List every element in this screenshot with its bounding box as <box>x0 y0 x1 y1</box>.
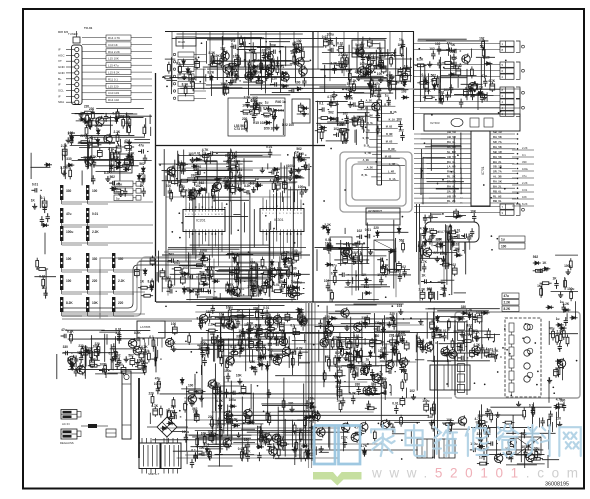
capacitor C391 <box>205 290 216 294</box>
pin 13 IC701 <box>446 192 471 194</box>
resistor R188 <box>259 285 271 288</box>
wire <box>205 74 207 81</box>
wire <box>442 422 465 424</box>
diode D113 <box>301 106 309 110</box>
capacitor C94 in CRT block <box>527 372 533 378</box>
pin 21 IC201 <box>211 232 213 235</box>
resistor R115 <box>208 63 220 66</box>
wire <box>230 201 232 234</box>
wire <box>250 384 252 410</box>
wire <box>291 351 293 375</box>
wire <box>271 350 283 352</box>
jumper bar J14 <box>86 297 89 312</box>
wire <box>427 168 446 170</box>
wire <box>207 385 243 387</box>
wire <box>358 379 380 381</box>
svg-text:100: 100 <box>501 245 507 249</box>
svg-text:GND: GND <box>58 65 66 69</box>
wire <box>82 57 106 59</box>
wire <box>541 284 543 297</box>
diode D234 <box>368 81 372 89</box>
wire <box>255 76 289 78</box>
svg-text:100: 100 <box>199 446 205 450</box>
wire gray bus top right <box>344 89 520 108</box>
svg-text:SL_8M: SL_8M <box>447 150 456 154</box>
capacitor C361 <box>482 451 486 460</box>
resistor R181 <box>170 190 173 202</box>
ground <box>381 326 386 332</box>
capacitor C140 <box>125 156 130 167</box>
wire <box>357 367 359 377</box>
capacitor C104 <box>230 45 241 49</box>
wire <box>218 345 220 357</box>
pin 10 IC301 <box>293 206 295 209</box>
wire <box>426 143 446 145</box>
capacitor C188 <box>333 133 344 137</box>
wire <box>254 336 285 338</box>
connector CN201 <box>500 41 514 46</box>
jumper bar J3 <box>60 208 63 223</box>
wire <box>231 46 233 85</box>
capacitor C431 <box>116 144 121 155</box>
svg-text:220: 220 <box>118 301 124 305</box>
diode D224 <box>180 377 184 385</box>
pin 3 IC701 <box>446 143 471 145</box>
resistor R101 <box>116 109 119 121</box>
wire bus snake black <box>62 265 206 308</box>
wire <box>279 256 281 284</box>
svg-text:1u: 1u <box>385 93 389 97</box>
svg-text:0.1: 0.1 <box>191 449 196 453</box>
pin 12 IC301 <box>300 206 302 209</box>
wire <box>453 137 455 203</box>
svg-text:1u: 1u <box>556 317 560 321</box>
svg-text:100u: 100u <box>567 287 574 291</box>
wire <box>194 61 206 63</box>
wire <box>186 299 296 301</box>
wire <box>295 430 297 457</box>
resistor R375 <box>261 272 273 275</box>
resistor R185 <box>282 258 294 261</box>
resistor R123 <box>276 63 279 75</box>
capacitor C114 <box>267 51 271 60</box>
resistor R350 <box>184 401 187 413</box>
ground <box>418 319 423 325</box>
wire <box>144 343 146 370</box>
wire <box>187 177 304 179</box>
diode D212 <box>555 359 563 363</box>
capacitor C359 <box>541 417 545 426</box>
pin 2 IC701 <box>446 138 471 140</box>
capacitor C167 <box>255 181 259 190</box>
capacitor C287 <box>240 332 245 343</box>
capacitor C184 <box>229 287 233 296</box>
svg-text:R11 2.2K: R11 2.2K <box>108 50 120 54</box>
multi wire bundle vertical <box>305 303 307 455</box>
wire <box>353 92 393 94</box>
wire <box>345 274 411 276</box>
wire <box>209 255 211 289</box>
wire <box>524 451 526 468</box>
capacitor C317 <box>392 321 396 330</box>
wire <box>376 107 378 121</box>
svg-text:562: 562 <box>352 366 358 370</box>
capacitor C428 <box>381 63 386 74</box>
wire <box>86 124 113 126</box>
wire <box>61 268 63 272</box>
wire <box>308 164 310 187</box>
wire <box>427 360 490 362</box>
wire <box>344 228 346 234</box>
wire <box>230 381 232 441</box>
wire <box>315 446 317 455</box>
wire <box>441 279 455 281</box>
diode D123 <box>150 284 154 292</box>
capacitor C160 <box>301 164 312 168</box>
wire <box>197 432 199 459</box>
svg-text:330: 330 <box>118 257 124 261</box>
wire <box>87 223 89 227</box>
wire <box>439 65 441 102</box>
wire <box>227 153 229 160</box>
wire heavy vertical power <box>138 378 140 458</box>
pin 16 IC701 <box>490 202 516 204</box>
wire <box>90 359 100 361</box>
pin 1 IC201 <box>185 207 187 210</box>
svg-text:562: 562 <box>399 239 405 243</box>
pin 29 IC701 <box>490 138 518 140</box>
svg-text:10K: 10K <box>400 362 407 366</box>
svg-text:D50 100u: D50 100u <box>264 126 278 130</box>
wire <box>269 314 271 343</box>
resistor R298 <box>299 430 302 442</box>
wire <box>241 397 243 462</box>
wire <box>422 157 424 204</box>
svg-text:102: 102 <box>119 115 125 119</box>
ground <box>356 75 361 81</box>
capacitor C461 <box>472 213 476 222</box>
diode D209 <box>563 308 571 312</box>
svg-text:562: 562 <box>434 328 440 332</box>
diode D118 <box>114 166 122 170</box>
wire <box>241 428 255 430</box>
resistor R272 <box>404 371 407 383</box>
wire <box>315 101 348 103</box>
capacitor C174 <box>180 275 185 286</box>
ground <box>374 63 379 69</box>
wire <box>246 52 270 54</box>
resistor R159 <box>70 134 73 146</box>
wire <box>323 317 325 387</box>
diode D181 <box>265 363 269 371</box>
resistor R324 <box>552 329 555 341</box>
wire <box>170 273 310 275</box>
wire <box>82 71 106 73</box>
wire <box>282 293 304 295</box>
wire <box>375 334 377 366</box>
diode D160 <box>423 239 427 247</box>
ground <box>366 55 371 61</box>
wire <box>414 76 500 78</box>
wire <box>423 217 438 219</box>
diode D184 <box>257 363 265 367</box>
capacitor C322 <box>347 339 352 350</box>
pin T801 <box>172 438 174 443</box>
wire <box>234 156 270 158</box>
capacitor C283 <box>298 350 302 359</box>
capacitor C312 <box>381 390 392 394</box>
resistor R152 <box>69 167 72 179</box>
ground <box>127 139 132 145</box>
capacitor C186 <box>350 102 361 106</box>
capacitor C241 <box>74 368 78 377</box>
capacitor C329 <box>365 315 370 326</box>
pin 19 CN401 <box>377 169 382 171</box>
capacitor C313 <box>392 346 396 355</box>
ground <box>328 38 333 44</box>
diode D173 <box>247 420 255 424</box>
svg-text:DEGAUSS: DEGAUSS <box>60 441 74 445</box>
resistor R173 <box>169 181 181 184</box>
capacitor C305 <box>257 340 261 349</box>
wire horizontal divider mid <box>156 145 325 147</box>
resistor R244 <box>186 390 198 393</box>
diode D167 <box>533 261 541 265</box>
svg-text:1u: 1u <box>290 51 294 55</box>
resistor R250 <box>263 345 266 357</box>
resistor R239 <box>168 408 171 420</box>
wire <box>223 181 286 183</box>
svg-text:8.2K: 8.2K <box>292 42 299 46</box>
wire <box>277 407 279 448</box>
wire <box>215 317 293 319</box>
capacitor C324 <box>373 385 377 394</box>
wire <box>251 349 253 362</box>
ground <box>328 331 333 337</box>
svg-text:8.2K: 8.2K <box>134 331 141 335</box>
wire <box>215 420 454 422</box>
capacitor C337 <box>420 346 431 350</box>
capacitor C399 <box>329 99 333 108</box>
capacitor C147 <box>150 256 155 267</box>
wire <box>302 314 304 331</box>
transistor Q124 <box>224 410 232 421</box>
capacitor C229 <box>421 279 432 283</box>
wire <box>389 71 391 94</box>
diode D119 <box>110 163 114 171</box>
diode D126 <box>41 223 49 227</box>
resistor R208 <box>402 241 405 253</box>
wires IC701 to bus <box>414 133 448 135</box>
wire <box>421 192 447 194</box>
wire <box>87 241 89 245</box>
wire <box>471 313 473 341</box>
capacitor C235 <box>440 292 451 296</box>
wire <box>207 312 298 314</box>
capacitor C192 <box>343 254 348 265</box>
pin 12 IC201 <box>221 207 223 210</box>
resistor R221 <box>427 231 439 234</box>
pin 9 IC301 <box>290 206 292 209</box>
diode D233 <box>257 75 261 83</box>
wire <box>75 113 133 115</box>
watermark logo ribbon green <box>313 472 362 486</box>
wire <box>228 318 437 320</box>
capacitor C269 <box>215 385 220 396</box>
wire <box>181 388 201 390</box>
wire <box>420 233 422 271</box>
capacitor C460 <box>461 234 472 238</box>
ground <box>547 377 552 383</box>
resistor R226 <box>570 289 573 301</box>
wire <box>438 77 440 104</box>
transistor Q138 <box>400 357 408 368</box>
diode D223 <box>401 96 409 100</box>
svg-text:100u: 100u <box>288 164 295 168</box>
wire <box>511 344 513 347</box>
wire <box>450 225 452 250</box>
wire <box>222 338 287 340</box>
pin 6 IC201 <box>201 207 203 210</box>
wire <box>210 75 212 96</box>
pin 7 IC702 <box>463 242 465 254</box>
capacitor C129 <box>332 65 336 74</box>
wire <box>194 374 196 385</box>
svg-text:IC701: IC701 <box>481 166 485 175</box>
diode D218 <box>297 154 301 162</box>
wire rail second <box>196 37 262 39</box>
ground <box>303 317 308 323</box>
capacitor C291 <box>298 312 303 323</box>
wire <box>377 231 409 233</box>
wire <box>104 334 106 362</box>
pin 3 IF702 <box>148 338 150 345</box>
ground <box>274 124 279 130</box>
diode D156 <box>448 73 456 77</box>
wire <box>361 246 363 276</box>
wire <box>110 348 136 350</box>
ground <box>118 191 123 197</box>
diode D166 <box>542 267 550 271</box>
wire <box>339 124 346 126</box>
resistor R299 <box>277 443 289 446</box>
pin 11 IC701 <box>446 182 471 184</box>
wire <box>435 315 476 317</box>
resistor R129 <box>238 55 241 67</box>
wire <box>415 335 417 353</box>
wire <box>177 167 291 169</box>
transistor Q144 <box>341 307 349 318</box>
wire <box>410 58 412 83</box>
wire <box>310 423 312 449</box>
resistor R124 <box>211 53 214 65</box>
wire gray bus branch <box>100 250 196 319</box>
capacitor C419 <box>378 375 383 386</box>
wire <box>511 392 513 395</box>
wire <box>432 360 452 362</box>
resistor R282 <box>325 333 328 345</box>
svg-text:220: 220 <box>149 392 155 396</box>
capacitor C132 <box>379 58 384 69</box>
capacitor C451 <box>470 91 474 100</box>
ground <box>105 176 110 182</box>
svg-text:L_4R: L_4R <box>389 163 395 166</box>
pin 4 IC201 <box>195 207 197 210</box>
capacitor C320 <box>386 370 397 374</box>
capacitor C455 <box>456 66 461 77</box>
resistor R187 <box>290 263 293 275</box>
resistor R321 <box>548 417 551 429</box>
wire <box>206 298 263 300</box>
resistor R194 <box>226 282 229 294</box>
svg-text:K6257: K6257 <box>355 52 364 56</box>
wire <box>315 246 370 248</box>
svg-text:0.01: 0.01 <box>263 306 269 310</box>
jumper bar J7 <box>60 253 63 268</box>
capacitor C383 <box>181 187 186 198</box>
resistor R117 <box>265 69 268 81</box>
capacitor C156 <box>225 180 230 191</box>
svg-text:RA_5K: RA_5K <box>493 135 502 139</box>
capacitor C263 <box>190 459 194 468</box>
capacitor C209 <box>327 245 331 254</box>
svg-text:L15 10K: L15 10K <box>108 57 119 61</box>
svg-text:R15 102: R15 102 <box>253 121 265 125</box>
capacitor C268 <box>227 414 232 425</box>
capacitor C349 <box>442 332 446 341</box>
wire <box>379 43 381 68</box>
resistor R165 <box>168 278 171 290</box>
wire <box>480 58 482 90</box>
resistor R369 <box>253 51 256 63</box>
svg-text:10K: 10K <box>427 288 434 292</box>
wire <box>350 317 352 373</box>
resistor R331 <box>352 432 364 435</box>
pin 19 IC201 <box>205 232 207 235</box>
resistor R169 <box>272 180 275 192</box>
svg-text:102: 102 <box>410 389 416 393</box>
resistor R121 <box>223 49 226 61</box>
resistor R191 <box>250 287 253 299</box>
diode D152 <box>397 226 401 234</box>
resistor R252 <box>228 352 240 355</box>
capacitor C151 <box>40 216 44 225</box>
svg-text:10K: 10K <box>446 418 453 422</box>
svg-text:RL_9S: RL_9S <box>493 194 502 198</box>
wire <box>539 418 541 428</box>
wire <box>194 68 206 70</box>
wire <box>496 418 498 460</box>
pin 8 IC701 <box>446 168 471 170</box>
wire <box>472 337 493 339</box>
resistor R373 <box>198 258 210 261</box>
wire <box>245 340 247 372</box>
wire gray bus vertical pair <box>308 302 310 468</box>
diode D222 <box>202 253 206 261</box>
wire <box>185 434 315 436</box>
resistor list column <box>106 35 131 40</box>
capacitor C397 <box>398 121 402 130</box>
svg-text:2.2K: 2.2K <box>522 146 528 150</box>
wire <box>414 107 500 109</box>
ground <box>32 203 37 209</box>
resistor R268 <box>200 318 203 330</box>
wire <box>223 38 291 40</box>
wire <box>164 251 302 253</box>
svg-text:SAW F: SAW F <box>355 43 365 47</box>
capacitor C164 <box>188 192 192 201</box>
transistor Q109 <box>299 66 307 77</box>
